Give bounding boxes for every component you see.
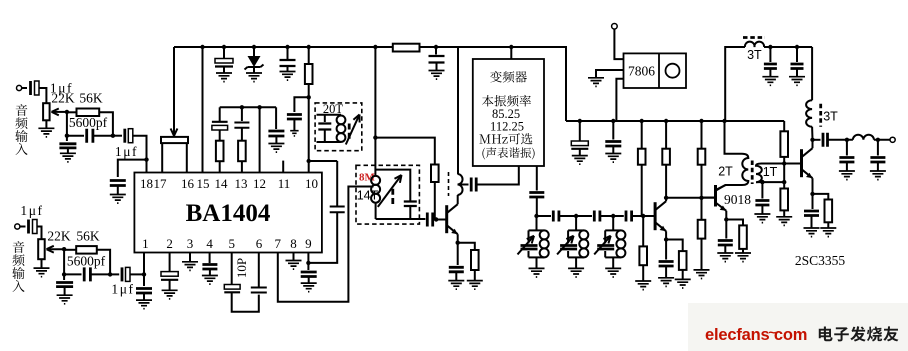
label 3T top: [747, 48, 762, 62]
watermark background: [688, 303, 908, 351]
label 1T: [763, 165, 778, 179]
capacitor C34 Q4 emitter: [718, 220, 733, 254]
wire ch1 filter row: [67, 135, 84, 137]
capacitor C10 ch2 pin1 decouple: [136, 274, 152, 300]
capacitor C12 on bus: [280, 47, 296, 72]
ground (C12): [280, 72, 296, 81]
capacitor C20 electrolytic pin2: [161, 253, 178, 291]
svg-text:22K: 22K: [51, 90, 75, 105]
label 1μf (C7): [115, 144, 138, 159]
pin 7 label: [275, 236, 282, 251]
ground (C20): [162, 290, 178, 299]
svg-text:1μf: 1μf: [115, 144, 138, 159]
svg-text:7: 7: [275, 236, 282, 251]
node R11 junction: [699, 196, 703, 200]
node pin18 ch1: [144, 157, 148, 161]
wire 1T bottom out: [759, 181, 784, 183]
wire top supply bus: [174, 46, 393, 48]
node B1 ch1: [111, 134, 115, 138]
wire C19 up: [336, 161, 338, 207]
node pin1 ch2: [142, 272, 146, 276]
label 1μf (C1): [50, 81, 73, 96]
node: channel-1 input terminal: [17, 85, 22, 90]
resistor R14 Q4 emitter: [726, 220, 747, 254]
capacitor C16 rail decouple: [268, 107, 284, 143]
capacitor C40 out filter: [839, 140, 854, 171]
node Q5 emitter: [810, 192, 814, 196]
ground (7806): [588, 78, 604, 87]
capacitor C26 Q1 emitter: [449, 243, 464, 281]
wire Q3 collector: [665, 198, 667, 201]
node Q1 emitter: [456, 241, 460, 245]
regulator U2 7806 body: [624, 53, 687, 88]
transistor Q2 buffer: [447, 195, 458, 234]
inductor L3 choke: [458, 174, 463, 195]
wire lower supply bus: [566, 120, 784, 122]
wiper arrow RP1: [52, 109, 67, 116]
pin 13 label: [235, 176, 248, 191]
label 14T: [357, 189, 379, 203]
wire C39 to node: [828, 139, 853, 141]
label 1μf (C8): [111, 282, 134, 297]
ground (C18): [301, 283, 317, 292]
ground pin3: [182, 253, 198, 271]
resistor R3 (bus to pin10): [305, 47, 313, 97]
node pin9: [306, 261, 310, 265]
node bus R3: [307, 45, 311, 49]
label (声表谐振): [482, 147, 534, 159]
resistor R10 Q3 collector: [662, 119, 670, 198]
svg-text:1μf: 1μf: [20, 203, 43, 218]
svg-text:4: 4: [206, 236, 213, 251]
wire 14T top link: [376, 170, 411, 201]
svg-text:8: 8: [290, 236, 297, 251]
inductor T1 secondary 1T: [756, 164, 762, 183]
pin 18 label: [140, 176, 153, 191]
resistor R12 9018 lower bias: [698, 198, 706, 270]
wire bus to box C28: [429, 45, 445, 71]
wire 7806 output: [616, 79, 623, 121]
label 2SC3355: [795, 253, 846, 268]
svg-text:2: 2: [166, 236, 173, 251]
svg-text:1T: 1T: [763, 165, 778, 179]
resistor R1 56K ch1: [67, 109, 113, 136]
tank L6/CT3: [594, 216, 625, 277]
dashed box 20T: [315, 103, 362, 151]
svg-text:1μf: 1μf: [111, 282, 134, 297]
capacitor C38: [791, 47, 804, 77]
node Q3 collector: [664, 196, 668, 200]
wire Q3-Q4 coupling: [666, 197, 714, 199]
label 变频器: [490, 71, 527, 83]
ground (R18): [820, 228, 836, 237]
node: antenna terminal: [890, 137, 895, 142]
inductor T1 primary 2T: [716, 154, 748, 190]
label 5600pf (C3): [69, 115, 108, 130]
ground (C34): [717, 253, 733, 262]
svg-text:5600pf: 5600pf: [67, 254, 106, 269]
ground (C16): [268, 144, 284, 153]
capacitor C11 electrolytic on bus: [215, 47, 233, 73]
resistor R5 pin14: [216, 141, 224, 173]
wire C4 to node B2: [90, 273, 110, 275]
wire ch2 filter row: [64, 273, 81, 275]
trimmer arrow 20T: [346, 115, 360, 145]
wire pin7 loop: [278, 187, 374, 302]
node T2-C38: [795, 45, 799, 49]
core T1 dashes: [751, 161, 754, 185]
capacitor C17 in 20T box: [318, 124, 331, 143]
node A1b ch1: [65, 112, 69, 141]
node out1: [845, 138, 849, 142]
wire pin18 stub: [146, 160, 148, 173]
ground (RP1): [38, 128, 54, 137]
resistor R9 Q2 lower bias: [639, 216, 647, 281]
ground (C13) small: [290, 131, 298, 136]
inductor L2 14T coil: [371, 176, 380, 219]
wire C25 to base: [433, 219, 447, 221]
dashed box 14T: [356, 165, 419, 224]
node 1T bottom b: [782, 180, 786, 184]
label 20T: [323, 102, 344, 116]
node bus C42: [578, 119, 582, 123]
svg-text:7806: 7806: [628, 64, 655, 79]
svg-text:3T: 3T: [823, 110, 838, 124]
node A1 ch1: [65, 110, 69, 114]
pin 9 label: [305, 236, 312, 251]
SAW box 变频器: [473, 59, 544, 166]
resistor R16 Q5 upper bias: [780, 121, 788, 164]
node Q1 base: [434, 217, 438, 221]
node Q5 collector: [810, 138, 814, 142]
label 22K (RP1): [51, 90, 75, 105]
capacitor C33 Q3 emitter: [659, 240, 674, 278]
node bus 14T feed: [373, 45, 377, 49]
capacitor C14 electrolytic pin14: [212, 107, 228, 140]
wire pin9 to C19: [308, 213, 337, 263]
node bus ecap: [222, 45, 226, 49]
trimmer plates 14T: [391, 189, 394, 204]
node 2T bus: [722, 119, 726, 123]
node: 7806 input terminal: [612, 24, 618, 30]
capacitor C37: [764, 47, 777, 77]
ground (C41): [870, 171, 886, 180]
node Q4 emitter: [724, 217, 728, 221]
node 14T-R4: [373, 135, 377, 139]
wire top bus right: [420, 47, 567, 121]
svg-text:2SC3355: 2SC3355: [795, 253, 846, 268]
svg-text:9: 9: [305, 236, 312, 251]
inductor L1 20T coil: [337, 116, 346, 142]
svg-text:13: 13: [235, 176, 248, 191]
svg-text:1: 1: [142, 236, 149, 251]
ground (D1): [246, 73, 262, 82]
dashed core L3: [448, 172, 450, 196]
svg-text:11: 11: [278, 176, 291, 191]
svg-text:12: 12: [253, 176, 266, 191]
inductor L7 3T vertical: [806, 100, 812, 140]
label 22K (RP2): [47, 229, 71, 244]
wire 7806 input: [614, 29, 623, 59]
svg-text:9018: 9018: [724, 192, 751, 207]
wire T2 right: [764, 46, 812, 48]
wire choke column: [457, 47, 459, 174]
wire Q5 emitter: [812, 178, 814, 194]
node B2 ch2: [108, 272, 112, 276]
node bus zener: [252, 45, 256, 49]
capacitor C7 1μf coupling to pin18: [113, 129, 147, 160]
core L7 dashes: [819, 104, 822, 127]
capacitor C43: [605, 121, 621, 154]
wire Q5 collector: [812, 140, 814, 148]
node bus cap C12: [285, 45, 289, 49]
wire 20T top rail: [317, 115, 342, 122]
svg-text:14: 14: [215, 176, 229, 191]
ground pin8: [286, 253, 302, 270]
tank L5/CT2: [557, 216, 588, 277]
wire R4 link: [375, 138, 434, 165]
zener diode D1: [245, 47, 264, 73]
wire T2 left: [725, 47, 745, 121]
svg-text:22K: 22K: [47, 229, 71, 244]
capacitor C4 5600pf ch2: [84, 267, 90, 281]
capacitor C27 SAW coupling: [471, 178, 476, 192]
core T2 dashes: [743, 36, 765, 39]
wire 14T feed column: [374, 47, 376, 176]
wire pin10 column: [308, 97, 310, 172]
watermark elecfans.com: [705, 325, 807, 344]
node Q2 base: [641, 214, 645, 218]
potentiometer RP1 22K ch1: [43, 103, 50, 128]
trimmer plates 20T: [348, 124, 351, 140]
capacitor C18 pin9 decouple: [301, 263, 317, 283]
wire 2T primary top: [725, 121, 743, 154]
wire pin9 stub: [307, 253, 309, 263]
node chain T2: [574, 214, 578, 218]
pin 2 label: [166, 236, 173, 251]
node rail C15: [240, 105, 244, 109]
capacitor C31 chain: [594, 211, 600, 222]
svg-text:15: 15: [197, 176, 210, 191]
wire chain 2: [559, 215, 592, 217]
pin 1 label: [142, 236, 149, 251]
pin 5 label: [228, 236, 235, 251]
capacitor C36 Q5 emitter: [804, 194, 819, 228]
resistor R6 pin13: [238, 141, 246, 173]
resistor R2 56K ch2: [64, 246, 110, 274]
label 本振频率: [482, 95, 531, 107]
wire bus-box stub: [509, 45, 513, 59]
pin 16 label: [181, 176, 195, 191]
ground (R7): [467, 281, 483, 290]
ground (C40): [839, 171, 855, 180]
svg-text:5: 5: [228, 236, 235, 251]
node chain T1: [534, 214, 538, 218]
label MHz可选: [479, 133, 532, 144]
wiper arrow pot U1 (pins16/17): [171, 120, 178, 136]
resistor R4 Q1 base bias: [431, 165, 439, 220]
label 音频输入 ch1: [15, 104, 27, 155]
svg-text:BA1404: BA1404: [186, 200, 271, 227]
capacitor C42 electrolytic: [571, 121, 588, 156]
pin 8 label: [290, 236, 297, 251]
svg-text:5600pf: 5600pf: [69, 115, 108, 130]
ground (C10): [136, 300, 152, 309]
wire chain 3: [600, 215, 624, 217]
svg-text:14T: 14T: [357, 189, 379, 203]
node pin10-osc: [307, 159, 311, 163]
capacitor C19 osc feedback: [330, 207, 345, 213]
node bus-pot: [173, 47, 175, 131]
capacitor C6 ch2 to ground: [56, 283, 73, 296]
node A2 ch2: [62, 247, 66, 251]
label 7806: [628, 64, 655, 79]
ground (R12): [694, 270, 710, 279]
svg-text:17: 17: [154, 176, 168, 191]
capacitor C35 1T bottom: [755, 182, 769, 214]
ground (R15): [776, 217, 792, 226]
wire pin12: [259, 107, 261, 172]
wire 14T bottom rail: [376, 218, 426, 220]
label 3T vertical: [823, 110, 838, 124]
ground (C42): [572, 156, 588, 165]
IC U1 BA1404 body: [134, 173, 322, 253]
wire Q5 base vertical: [783, 164, 785, 183]
node A2b ch2: [62, 249, 66, 280]
resistor R8 Q2 upper bias: [638, 119, 646, 216]
pin 17 label: [154, 176, 168, 191]
node rail pin12: [257, 105, 261, 109]
ground (C26): [448, 281, 464, 290]
label 56K (R1): [79, 90, 103, 105]
inductor T2 3T top: [745, 42, 764, 47]
capacitor C22 electrolytic pin5: [224, 253, 258, 312]
node out2: [876, 138, 880, 142]
wire SAW out2: [536, 166, 538, 191]
potentiometer (IC pot) body: [161, 137, 188, 173]
label 56K (R2): [76, 229, 100, 244]
svg-text:18: 18: [140, 176, 153, 191]
capacitor C39 output coupling: [823, 133, 828, 147]
svg-text:3T: 3T: [747, 48, 762, 62]
watermark 电子发烧友: [819, 326, 899, 341]
ground (C43): [605, 154, 621, 163]
tank L4/CT1: [518, 216, 549, 277]
wire rail y107: [220, 106, 276, 108]
ground (C35): [754, 214, 770, 223]
capacitor C21 pin4: [202, 253, 217, 276]
label 112.25: [490, 119, 524, 133]
ground (C5): [60, 153, 76, 162]
wire L8 to terminal: [874, 139, 890, 141]
svg-text:10: 10: [305, 176, 318, 191]
wire pin1 stub: [143, 253, 145, 275]
label 9018: [724, 192, 751, 207]
wire collector to C39: [813, 139, 821, 141]
capacitor C9 ch1 pin18 decouple: [110, 181, 126, 195]
node 1T bottom a: [760, 180, 764, 184]
ground (C36): [804, 228, 820, 237]
label BA1404: [186, 200, 271, 227]
wire C27 to SAW box: [476, 166, 519, 185]
wire choke to C27: [458, 184, 469, 186]
label 10P rotated: [234, 258, 249, 278]
capacitor C41 out filter: [870, 140, 885, 171]
label 85.25: [492, 107, 520, 121]
capacitor C15 pin13: [234, 107, 249, 140]
label 音频输入 ch2: [12, 241, 24, 292]
svg-text:2T: 2T: [718, 165, 733, 179]
wire Q4 emitter: [725, 211, 727, 220]
ground (C28): [429, 71, 445, 80]
label 1μf (C2): [20, 203, 43, 218]
ground (R9): [635, 281, 651, 290]
svg-text:56K: 56K: [76, 229, 100, 244]
ground (C33): [658, 278, 674, 287]
node: channel-2 input terminal: [15, 224, 20, 229]
svg-text:56K: 56K: [79, 90, 103, 105]
inductor L8 output: [853, 135, 874, 140]
pin 3 label: [187, 236, 194, 251]
pin 10 label: [305, 176, 318, 191]
wire 7806 ground: [596, 70, 624, 78]
ground (R14): [735, 253, 751, 262]
wire pin15 to bus: [202, 47, 204, 173]
potentiometer RP2 22K ch2: [38, 239, 45, 268]
wire 1T top out: [762, 163, 802, 165]
node T2-C37: [768, 45, 772, 49]
pin 11 label: [278, 176, 291, 191]
pin 6 label: [256, 236, 263, 251]
wire Q1 emitter: [457, 234, 459, 243]
resistor R15 Q5 lower bias: [780, 182, 788, 217]
label 5600pf (C4): [67, 254, 106, 269]
capacitor C24 in 14T box: [404, 202, 417, 220]
ground (C37): [762, 77, 778, 86]
pin 14 label: [215, 176, 229, 191]
watermark 8M red: [359, 172, 376, 184]
pin 4 label: [206, 236, 213, 251]
svg-text:112.25: 112.25: [490, 119, 524, 133]
capacitor C13: [287, 115, 302, 131]
capacitor C1 1μf input coupling ch1: [22, 81, 47, 103]
node pin10-top: [307, 95, 311, 99]
pin 12 label: [253, 176, 266, 191]
transistor Q3: [655, 201, 666, 231]
ground (C21): [202, 276, 218, 285]
pin 15 label: [197, 176, 210, 191]
svg-text:16: 16: [181, 176, 195, 191]
wire Q3 emitter: [665, 231, 667, 239]
ground (C11): [216, 73, 232, 82]
svg-text:6: 6: [256, 236, 263, 251]
node chain T3: [611, 214, 615, 218]
node Q5 base: [782, 161, 786, 165]
ground (C9): [110, 195, 126, 204]
svg-text:10P: 10P: [234, 258, 249, 278]
wire chain 1: [537, 215, 552, 217]
node bus C43: [611, 119, 615, 123]
wire 20T bottom rail: [317, 141, 342, 143]
wire osc link right: [309, 160, 338, 162]
ground (R13): [675, 279, 691, 288]
svg-text:3: 3: [187, 236, 194, 251]
ground (RP2): [34, 268, 50, 277]
capacitor C3 5600pf ch1: [87, 129, 93, 143]
capacitor C8 1μf coupling to pin1: [110, 267, 144, 281]
wire R3 node to C13: [294, 97, 308, 112]
resistor R7 Q1 emitter: [458, 243, 479, 281]
